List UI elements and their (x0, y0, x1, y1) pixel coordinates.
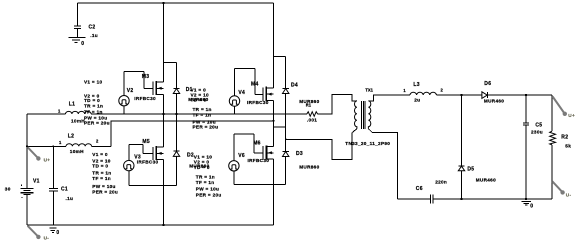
capacitor C6 220n (416, 180, 447, 204)
svg-text:TR = 1n: TR = 1n (196, 174, 215, 179)
transistor M4 IRFBC30 (247, 82, 273, 106)
voltage source V2 (119, 72, 153, 114)
svg-text:IRFBC30: IRFBC30 (134, 96, 156, 101)
svg-text:TX1: TX1 (365, 88, 373, 93)
diode D4 MUR860 (283, 83, 320, 105)
wire D6 to output corner (488, 94, 552, 96)
wire right leg mid (M4 source to M6 drain) (272, 100, 274, 146)
svg-text:MUR460: MUR460 (484, 99, 504, 104)
voltage source V6 (229, 134, 264, 185)
wire V1 to bottom rail (26, 195, 28, 225)
svg-text:V2 = 0: V2 = 0 (194, 160, 210, 165)
svg-text:TF = 1n: TF = 1n (196, 180, 215, 185)
svg-text:U-: U- (566, 192, 572, 197)
svg-text:TF = 1n: TF = 1n (92, 176, 111, 181)
svg-text:V1 = 10: V1 = 10 (84, 80, 102, 85)
svg-text:PER = 20u: PER = 20u (84, 121, 110, 126)
svg-text:5k: 5k (565, 143, 571, 148)
svg-text:D6: D6 (484, 81, 491, 87)
wire D5 anode to bottom wire (461, 171, 463, 199)
svg-text:U+: U+ (568, 113, 575, 118)
svg-text:TR = 1n: TR = 1n (84, 103, 103, 108)
svg-text:C2: C2 (89, 24, 96, 30)
ground 0 at C2 (68, 37, 85, 47)
battery V1 30 (5, 179, 40, 199)
svg-text:PW = 10u: PW = 10u (92, 184, 115, 189)
wire left feed column (26, 114, 28, 188)
V6 pulse parameters (194, 154, 222, 197)
wire V6 minus to D3 anode (234, 184, 286, 186)
inductor L3 2u (403, 82, 443, 103)
wire top rail (78, 2, 274, 4)
svg-text:PER = 20u: PER = 20u (196, 193, 222, 198)
transformer TX1 secondary winding (368, 101, 370, 129)
svg-text:TD = 0: TD = 0 (84, 98, 100, 103)
wire D2 column lower (176, 156, 178, 185)
wire D3 column lower (285, 157, 287, 185)
wire left leg mid (M3 source to M5 drain) (162, 95, 164, 148)
wire node A (L1 to R1) (91, 113, 307, 115)
svg-text:L1: L1 (69, 101, 75, 107)
wire D5 column (461, 95, 463, 166)
svg-text:V4: V4 (238, 90, 245, 96)
diode D6 MUR460 (482, 81, 504, 104)
wire TX1 secondary bottom lead (368, 129, 397, 199)
transformer TX1 core (362, 101, 365, 129)
wire TX1 secondary top lead (368, 95, 410, 101)
svg-text:V1: V1 (33, 179, 40, 185)
ground 0 at bottom rail (50, 228, 60, 236)
svg-text:PW = 10u: PW = 10u (193, 119, 216, 124)
node stub to D1 cathode (163, 62, 176, 64)
wire D4 column upper (285, 57, 287, 89)
wire right leg lower (M6 source to bottom rail) (272, 159, 274, 225)
svg-text:IRFBC30: IRFBC30 (247, 100, 269, 105)
svg-text:TR = 1n: TR = 1n (92, 170, 111, 175)
svg-text:M5: M5 (142, 139, 150, 145)
svg-text:.1u: .1u (66, 196, 74, 201)
V2 pulse parameters (84, 80, 110, 126)
wire node B (L2 riser to right leg mid) (111, 121, 273, 147)
svg-text:V3: V3 (134, 154, 141, 160)
svg-text:TF = 1n: TF = 1n (193, 112, 212, 117)
diode D1 MUR860 (173, 87, 208, 102)
wire bottom rail (27, 224, 273, 226)
svg-text:L3: L3 (413, 82, 419, 88)
svg-text:IRFBC30: IRFBC30 (248, 158, 270, 163)
svg-text:D4: D4 (291, 83, 298, 89)
diode D3 MUR860 (283, 151, 320, 170)
svg-text:TD = 0: TD = 0 (194, 165, 210, 170)
svg-text:C5: C5 (535, 123, 542, 129)
svg-text:TR = 1n: TR = 1n (193, 107, 212, 112)
capacitor C2 (74, 3, 98, 38)
wire node C stub (273, 126, 285, 128)
voltage source V3 (124, 144, 153, 185)
V4 pulse parameters (191, 88, 219, 130)
capacitor C5 230u (523, 95, 543, 199)
wire V3 minus to D2 anode (129, 185, 177, 187)
transistor M3 IRFBC30 (134, 74, 163, 101)
svg-text:TN33_20_11_2P90: TN33_20_11_2P90 (345, 141, 390, 146)
svg-text:V2: V2 (127, 88, 134, 94)
svg-text:0: 0 (56, 230, 59, 236)
svg-text:C1: C1 (61, 186, 68, 192)
svg-text:V2 = 10: V2 = 10 (92, 158, 110, 163)
wire output right column upper (551, 95, 553, 131)
svg-text:230u: 230u (531, 129, 543, 134)
svg-text:R1: R1 (306, 102, 312, 107)
svg-text:30: 30 (5, 186, 11, 191)
wire D4 junction to TX1 primary bottom (286, 129, 357, 160)
svg-text:D5: D5 (467, 166, 474, 172)
wire R2 to bottom wire (551, 145, 553, 199)
TX1 labels (345, 88, 390, 146)
wire R1 to TX1 primary top (318, 95, 357, 114)
svg-text:L2: L2 (68, 134, 74, 140)
svg-text:PW = 10u: PW = 10u (84, 115, 107, 120)
probe U- at bottom rail (28, 226, 50, 241)
resistor R1 .001 (307, 112, 318, 123)
node stub to D4 cathode (273, 56, 285, 58)
svg-text:M3: M3 (142, 74, 150, 80)
diode D2 MUR860 (173, 151, 209, 169)
svg-text:.1u: .1u (90, 33, 98, 38)
transistor M5 IRFBC30 (137, 139, 164, 165)
V3 pulse parameters (92, 152, 118, 194)
svg-text:V1 = 0: V1 = 0 (92, 152, 108, 157)
diode D5 MUR460 (458, 166, 496, 183)
probe U- at output return (552, 181, 571, 197)
svg-text:0: 0 (530, 204, 533, 210)
svg-text:PW = 10u: PW = 10u (196, 187, 219, 192)
wire output bottom (398, 198, 431, 200)
wire L3 to D6 (436, 94, 482, 96)
svg-text:U-: U- (44, 235, 50, 240)
svg-text:1: 1 (59, 140, 62, 145)
resistor R2 5k (550, 131, 572, 148)
probe U+ at output (553, 97, 575, 119)
svg-text:.001: .001 (307, 117, 317, 122)
svg-text:V1 = 10: V1 = 10 (194, 154, 212, 159)
svg-text:0: 0 (81, 41, 84, 47)
svg-text:PER = 20u: PER = 20u (92, 189, 118, 194)
svg-text:10mH: 10mH (70, 149, 84, 154)
svg-text:MUR860: MUR860 (299, 165, 319, 170)
capacitor C1 .1u (49, 146, 73, 225)
svg-text:220n: 220n (435, 180, 447, 185)
transformer TX1 primary winding (355, 101, 357, 129)
wire D4/D3 column middle (285, 94, 287, 152)
svg-text:U+: U+ (44, 157, 51, 162)
svg-text:R2: R2 (561, 135, 568, 141)
svg-text:PER = 20u: PER = 20u (193, 125, 219, 130)
svg-text:V6: V6 (238, 153, 245, 159)
svg-text:TD = 0: TD = 0 (191, 97, 207, 102)
wire left bridge leg upper (top rail to M3 drain) (162, 3, 164, 82)
probe U+ at left node (28, 147, 51, 162)
svg-text:TD = 0: TD = 0 (92, 164, 108, 169)
inductor L2 10mH (27, 134, 111, 155)
svg-text:C6: C6 (416, 186, 423, 192)
wire C6 to R2 column (433, 198, 552, 200)
svg-text:2: 2 (441, 88, 444, 93)
wire D1 column upper (176, 63, 178, 89)
svg-text:1: 1 (403, 88, 406, 93)
svg-text:2: 2 (96, 139, 99, 144)
voltage source V4 (229, 69, 263, 114)
wire right bridge leg upper (top rail to M4 drain) (272, 3, 274, 88)
wire left leg lower (M5 source to bottom rail) (162, 160, 164, 225)
transistor M6 IRFBC30 (248, 141, 274, 164)
wire D1/D2 column middle (176, 94, 178, 152)
inductor L1 10mH (27, 101, 91, 123)
svg-text:MUR460: MUR460 (476, 178, 496, 183)
svg-text:1: 1 (58, 108, 61, 113)
svg-text:2u: 2u (414, 98, 420, 103)
ground 0 at output (522, 202, 534, 210)
svg-text:10mH: 10mH (71, 119, 85, 124)
svg-text:D3: D3 (296, 151, 303, 157)
